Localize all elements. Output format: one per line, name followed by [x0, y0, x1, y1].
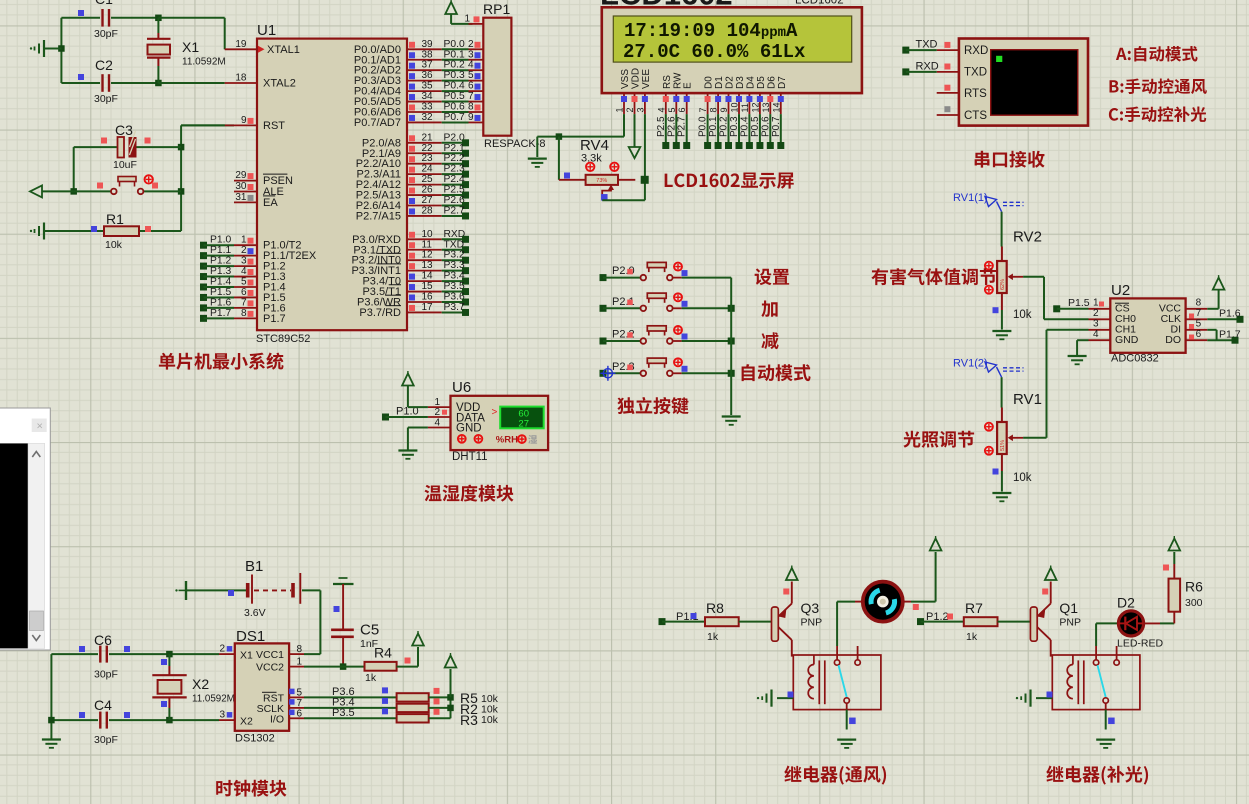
svg-text:13: 13: [761, 102, 771, 112]
svg-text:34: 34: [422, 91, 434, 102]
svg-text:1: 1: [297, 657, 303, 668]
svg-text:5: 5: [667, 107, 677, 112]
svg-text:P0.7: P0.7: [444, 112, 465, 123]
svg-text:XTAL2: XTAL2: [263, 78, 296, 90]
svg-text:RV1(1): RV1(1): [953, 192, 988, 204]
svg-text:RW: RW: [672, 72, 683, 89]
svg-text:R1: R1: [106, 211, 124, 227]
svg-text:62%: 62%: [1000, 279, 1006, 290]
svg-text:26: 26: [422, 185, 434, 196]
svg-text:D2: D2: [725, 76, 736, 89]
svg-text:11.0592M: 11.0592M: [192, 694, 235, 705]
svg-text:×: ×: [37, 421, 43, 433]
svg-text:D1: D1: [714, 76, 725, 89]
svg-text:B1: B1: [245, 558, 263, 575]
svg-text:VSS: VSS: [620, 69, 631, 89]
svg-text:TXD: TXD: [964, 67, 987, 79]
svg-text:P0.3: P0.3: [444, 70, 465, 81]
svg-text:4: 4: [656, 107, 666, 112]
svg-text:21: 21: [422, 132, 434, 143]
svg-text:25: 25: [422, 174, 434, 185]
svg-text:24: 24: [422, 164, 434, 175]
svg-text:11.0592M: 11.0592M: [182, 57, 226, 68]
svg-text:2: 2: [219, 644, 225, 655]
svg-text:R3: R3: [460, 712, 478, 728]
svg-text:27.0C 60.0% 61Lx: 27.0C 60.0% 61Lx: [623, 41, 805, 63]
svg-text:2: 2: [468, 39, 474, 50]
svg-text:TXD: TXD: [444, 239, 465, 250]
svg-text:TXD: TXD: [916, 39, 938, 51]
svg-text:D3: D3: [735, 76, 746, 89]
svg-text:P0.1: P0.1: [708, 116, 719, 137]
svg-text:X2: X2: [192, 676, 209, 692]
svg-text:C1: C1: [95, 0, 113, 7]
svg-text:4: 4: [468, 60, 474, 71]
svg-text:6: 6: [677, 107, 687, 112]
svg-text:5: 5: [468, 70, 474, 81]
svg-text:%RH: %RH: [496, 434, 518, 445]
svg-text:DO: DO: [1165, 334, 1181, 346]
svg-text:RXD: RXD: [916, 60, 939, 72]
svg-text:13: 13: [422, 260, 434, 271]
svg-text:P0.6: P0.6: [760, 116, 771, 137]
svg-text:R6: R6: [1185, 579, 1203, 595]
svg-text:27: 27: [518, 418, 529, 429]
svg-text:VEE: VEE: [641, 69, 652, 89]
svg-text:3: 3: [241, 256, 247, 267]
svg-text:35: 35: [422, 81, 434, 92]
svg-text:7: 7: [297, 698, 303, 709]
svg-text:C2: C2: [95, 57, 113, 73]
svg-text:P2.6: P2.6: [666, 116, 677, 137]
svg-text:ADC0832: ADC0832: [1111, 353, 1159, 365]
svg-text:19: 19: [235, 39, 247, 50]
svg-text:Q1: Q1: [1059, 600, 1078, 616]
svg-text:P1.3: P1.3: [210, 266, 231, 277]
svg-text:11: 11: [422, 239, 433, 250]
svg-text:9: 9: [719, 107, 729, 112]
svg-text:30pF: 30pF: [94, 734, 118, 746]
svg-text:17: 17: [422, 302, 434, 313]
svg-text:6: 6: [468, 81, 474, 92]
svg-text:R4: R4: [374, 645, 392, 661]
svg-text:28: 28: [422, 205, 434, 216]
svg-text:XTAL1: XTAL1: [267, 44, 300, 56]
svg-text:LCD1602: LCD1602: [795, 0, 844, 7]
svg-text:1k: 1k: [966, 631, 978, 643]
svg-text:P2.7: P2.7: [444, 205, 465, 216]
svg-text:RV1: RV1: [1013, 391, 1042, 408]
svg-text:LED-RED: LED-RED: [1117, 638, 1164, 650]
svg-text:P1.7: P1.7: [263, 313, 286, 325]
svg-text:3: 3: [468, 49, 474, 60]
svg-text:14: 14: [771, 102, 781, 112]
svg-text:33: 33: [422, 102, 434, 113]
svg-text:6: 6: [297, 708, 303, 719]
svg-text:3.3k: 3.3k: [581, 153, 602, 165]
svg-text:36: 36: [422, 70, 434, 81]
svg-text:DS1302: DS1302: [235, 733, 275, 745]
svg-text:VDD: VDD: [631, 68, 642, 89]
svg-text:27: 27: [422, 195, 434, 206]
svg-text:P0.4: P0.4: [444, 81, 465, 92]
svg-text:73%: 73%: [596, 178, 607, 184]
svg-text:C3: C3: [115, 122, 133, 138]
svg-text:10k: 10k: [105, 239, 123, 251]
svg-text:P3.5: P3.5: [332, 707, 355, 719]
svg-text:7: 7: [241, 297, 247, 308]
svg-text:11: 11: [740, 103, 750, 112]
svg-text:RS: RS: [662, 75, 673, 89]
svg-text:X2: X2: [240, 715, 253, 727]
svg-text:RXD: RXD: [964, 45, 988, 57]
svg-text:DHT11: DHT11: [452, 451, 488, 463]
svg-text:D5: D5: [756, 76, 767, 89]
svg-text:Q3: Q3: [801, 600, 820, 616]
svg-text:10k: 10k: [1013, 472, 1032, 484]
svg-text:P0.0: P0.0: [698, 116, 709, 137]
svg-text:P2.0: P2.0: [444, 132, 465, 143]
svg-text:18: 18: [235, 73, 247, 84]
svg-text:1: 1: [615, 107, 625, 112]
svg-text:E: E: [683, 82, 694, 89]
svg-text:P0.5: P0.5: [750, 116, 761, 137]
svg-text:P2.7: P2.7: [677, 116, 688, 137]
svg-text:C4: C4: [94, 697, 112, 713]
svg-text:RP1: RP1: [483, 1, 510, 17]
svg-text:3: 3: [219, 710, 225, 721]
svg-text:9: 9: [468, 112, 474, 123]
svg-text:P0.2: P0.2: [719, 116, 730, 137]
svg-text:P3.7/RD: P3.7/RD: [359, 307, 401, 319]
svg-text:1: 1: [464, 14, 470, 25]
svg-text:7: 7: [1196, 308, 1202, 319]
svg-text:10k: 10k: [481, 714, 499, 726]
svg-text:10k: 10k: [1013, 309, 1032, 321]
svg-text:P0.5: P0.5: [444, 91, 465, 102]
svg-text:P1.4: P1.4: [210, 277, 231, 288]
svg-text:22: 22: [422, 143, 434, 154]
svg-text:10: 10: [730, 102, 740, 112]
svg-text:RV4: RV4: [580, 137, 609, 154]
svg-text:3: 3: [635, 107, 645, 112]
svg-text:4: 4: [434, 418, 440, 429]
svg-text:8: 8: [709, 107, 719, 112]
svg-text:P1.0: P1.0: [210, 235, 231, 246]
svg-text:PNP: PNP: [1059, 617, 1081, 629]
svg-text:STC89C52: STC89C52: [256, 333, 310, 345]
svg-text:I/O: I/O: [270, 713, 284, 725]
svg-text:5: 5: [1196, 319, 1202, 330]
svg-text:EA: EA: [263, 197, 278, 209]
svg-text:2: 2: [434, 407, 440, 418]
svg-text:P3.3: P3.3: [444, 260, 465, 271]
svg-text:10uF: 10uF: [113, 159, 137, 171]
svg-text:P3.7: P3.7: [444, 302, 465, 313]
svg-text:2: 2: [625, 107, 635, 112]
svg-text:14: 14: [422, 271, 434, 282]
svg-text:P0.1: P0.1: [444, 49, 465, 60]
svg-text:C6: C6: [94, 632, 112, 648]
svg-text:P3.6: P3.6: [444, 292, 465, 303]
svg-text:300: 300: [1185, 597, 1203, 609]
svg-text:4: 4: [1093, 329, 1099, 340]
svg-text:U1: U1: [257, 22, 276, 39]
svg-text:P1.7: P1.7: [1219, 329, 1241, 341]
svg-text:12: 12: [750, 102, 760, 112]
svg-text:29: 29: [235, 170, 247, 181]
svg-text:P2.5: P2.5: [656, 116, 667, 137]
svg-text:P2.1: P2.1: [444, 143, 465, 154]
svg-text:1k: 1k: [365, 672, 377, 684]
svg-text:D0: D0: [704, 76, 715, 89]
svg-text:8: 8: [1196, 298, 1202, 309]
svg-text:RV2: RV2: [1013, 229, 1042, 246]
svg-text:7: 7: [468, 91, 474, 102]
svg-text:5: 5: [241, 277, 247, 288]
svg-text:P3.4: P3.4: [444, 271, 465, 282]
svg-text:RTS: RTS: [964, 88, 987, 100]
svg-text:7: 7: [698, 107, 708, 112]
svg-text:30pF: 30pF: [94, 28, 118, 40]
svg-text:32: 32: [422, 112, 434, 123]
svg-text:39: 39: [422, 39, 434, 50]
svg-text:5: 5: [297, 687, 303, 698]
svg-text:P2.7/A15: P2.7/A15: [356, 210, 401, 222]
svg-text:D6: D6: [766, 76, 777, 89]
svg-text:P0.0: P0.0: [444, 39, 465, 50]
svg-text:9: 9: [241, 115, 247, 126]
svg-text:P0.4: P0.4: [739, 116, 750, 137]
svg-text:P1.2: P1.2: [210, 256, 231, 267]
svg-text:CTS: CTS: [964, 110, 987, 122]
svg-text:P2.6: P2.6: [444, 195, 465, 206]
svg-text:P1.1: P1.1: [210, 245, 231, 256]
svg-text:P0.2: P0.2: [444, 60, 465, 71]
svg-text:1: 1: [1093, 298, 1099, 309]
svg-text:PNP: PNP: [801, 617, 823, 629]
svg-text:P3.2: P3.2: [444, 250, 465, 261]
svg-text:GND: GND: [1115, 334, 1139, 346]
svg-text:R8: R8: [706, 600, 724, 616]
svg-text:RST: RST: [263, 120, 285, 132]
svg-text:1k: 1k: [707, 631, 719, 643]
svg-text:16: 16: [422, 292, 434, 303]
svg-text:30pF: 30pF: [94, 669, 118, 681]
svg-text:RV1(2): RV1(2): [953, 358, 988, 370]
svg-text:3.6V: 3.6V: [244, 607, 266, 619]
svg-text:VCC1: VCC1: [256, 649, 284, 661]
svg-text:2: 2: [1093, 308, 1099, 319]
svg-text:U2: U2: [1111, 282, 1130, 299]
svg-text:P1.5: P1.5: [1068, 297, 1090, 309]
svg-text:6: 6: [1196, 329, 1202, 340]
svg-text:10: 10: [422, 229, 434, 240]
svg-text:P1.7: P1.7: [210, 308, 231, 319]
svg-text:P0.7/AD7: P0.7/AD7: [354, 117, 401, 129]
svg-text:15: 15: [422, 281, 434, 292]
svg-text:R7: R7: [965, 600, 983, 616]
svg-text:VCC2: VCC2: [256, 662, 284, 674]
svg-text:P2.4: P2.4: [444, 174, 465, 185]
svg-text:38: 38: [422, 49, 434, 60]
svg-text:P0.6: P0.6: [444, 102, 465, 113]
svg-text:8: 8: [241, 308, 247, 319]
svg-text:X1: X1: [240, 649, 253, 661]
svg-text:31: 31: [235, 192, 247, 203]
svg-text:37: 37: [422, 60, 434, 71]
svg-text:8: 8: [468, 102, 474, 113]
svg-text:GND: GND: [456, 423, 482, 435]
svg-text:12: 12: [422, 250, 434, 261]
svg-text:C5: C5: [360, 622, 379, 639]
svg-text:>: >: [492, 407, 498, 418]
svg-text:DS1: DS1: [236, 628, 265, 645]
svg-text:X1: X1: [182, 39, 199, 55]
svg-text:P0.7: P0.7: [771, 116, 782, 137]
svg-text:51%: 51%: [1000, 440, 1006, 451]
svg-text:D7: D7: [777, 76, 788, 89]
svg-text:P1.6: P1.6: [210, 297, 231, 308]
svg-text:P0.3: P0.3: [729, 116, 740, 137]
svg-text:30pF: 30pF: [94, 93, 118, 105]
svg-text:P2.3: P2.3: [444, 164, 465, 175]
svg-text:P2.2: P2.2: [444, 153, 465, 164]
svg-text:30: 30: [235, 181, 247, 192]
svg-text:D4: D4: [745, 76, 756, 89]
svg-text:RXD: RXD: [444, 229, 466, 240]
svg-text:P1.6: P1.6: [1219, 308, 1241, 320]
svg-text:23: 23: [422, 153, 434, 164]
svg-text:D2: D2: [1117, 595, 1135, 611]
svg-text:2: 2: [241, 245, 247, 256]
svg-text:P2.5: P2.5: [444, 185, 465, 196]
svg-text:4: 4: [241, 266, 247, 277]
svg-text:8: 8: [297, 644, 303, 655]
svg-text:P3.5: P3.5: [444, 281, 465, 292]
svg-text:1: 1: [241, 235, 247, 246]
svg-text:3: 3: [1093, 319, 1099, 330]
svg-text:P1.5: P1.5: [210, 287, 231, 298]
svg-text:6: 6: [241, 287, 247, 298]
svg-text:U6: U6: [452, 379, 471, 396]
